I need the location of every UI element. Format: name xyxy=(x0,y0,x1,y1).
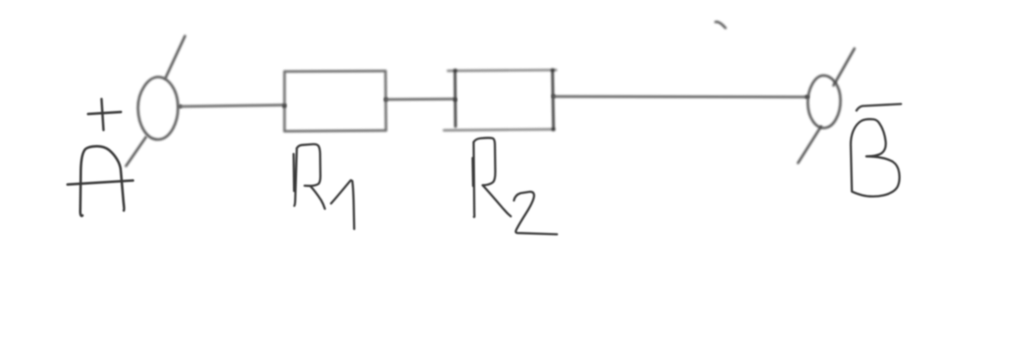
terminal B minus sign xyxy=(857,104,902,111)
junction wire at R1 right pin xyxy=(384,98,388,102)
label R2 xyxy=(473,138,557,234)
wire R2 to B xyxy=(554,95,809,98)
node A label xyxy=(68,146,134,216)
junction wire to terminal B xyxy=(805,95,809,99)
junction wire at R2 left pin xyxy=(453,98,457,102)
terminal B lower lead xyxy=(798,127,821,164)
wire R1 to R2 xyxy=(386,98,455,101)
stray tick mark xyxy=(716,22,726,28)
resistor R1 xyxy=(285,71,387,131)
terminal A upper lead xyxy=(166,36,186,78)
terminal B upper lead xyxy=(834,49,855,86)
junction wire A at R1 left pin xyxy=(282,104,286,108)
terminal A plus sign xyxy=(88,99,121,130)
wire A to R1 xyxy=(180,105,286,107)
terminal B xyxy=(808,76,841,129)
terminal A lower lead xyxy=(126,137,146,166)
resistor R2 xyxy=(444,68,556,131)
label R1 xyxy=(294,144,355,229)
node B label xyxy=(851,119,900,196)
junction wire at R2 right pin xyxy=(552,94,556,98)
terminal A xyxy=(138,77,178,140)
junction terminal A to wire xyxy=(178,105,182,109)
